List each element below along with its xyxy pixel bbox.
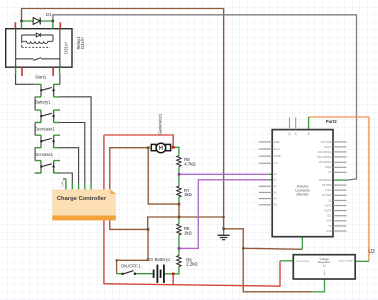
arduino left pin labels xyxy=(274,141,282,207)
svg-text:D13 PWM: D13 PWM xyxy=(321,141,332,144)
svg-text:Part2: Part2 xyxy=(326,119,338,124)
svg-text:12V Battery1: 12V Battery1 xyxy=(146,257,171,262)
diode D1 xyxy=(22,18,53,25)
node brown T to arduino branch xyxy=(242,247,244,249)
svg-text:5V: 5V xyxy=(288,132,291,135)
relay pin red stub bottom inner-right xyxy=(52,67,54,76)
svg-text:D9 PWM(A): D9 PWM(A) xyxy=(319,161,332,164)
wire green Arduino D7 lead xyxy=(333,179,347,181)
wire green R6 to battery plus xyxy=(164,267,179,274)
charge controller U1 box xyxy=(52,189,116,220)
wire dark Decrease1 to Increase1 xyxy=(34,148,36,161)
svg-text:D31A*: D31A* xyxy=(64,41,69,53)
wire brown D1-left to ground top rail xyxy=(22,9,224,229)
svg-text:adjust: adjust xyxy=(323,270,326,276)
wire gray D1-right to Arduino D7 xyxy=(53,15,357,180)
wire dark relay to Start1 right xyxy=(59,74,61,84)
wire brown branch to Arduino bottom pin xyxy=(243,248,302,249)
node R5/R6 purple junction xyxy=(178,247,181,250)
svg-text:ON./OFF.1: ON./OFF.1 xyxy=(121,263,142,268)
motor Generator1 xyxy=(150,143,172,153)
wire green R5 to purple junction xyxy=(178,235,180,249)
svg-text:5V: 5V xyxy=(329,225,332,228)
svg-text:Relay1D31A*: Relay1D31A* xyxy=(76,36,85,50)
wire dark CC pin1 hook xyxy=(63,178,66,180)
svg-text:ArduinoLeonardo(Rev3b): ArduinoLeonardo(Rev3b) xyxy=(295,185,309,197)
arduino right pin labels xyxy=(318,141,333,233)
relay pin red stub top-right xyxy=(59,22,61,28)
wire green Arduino top pin lead xyxy=(308,117,310,130)
svg-text:output voltage: output voltage xyxy=(338,259,354,262)
svg-text:D6 PWM(A): D6 PWM(A) xyxy=(319,179,332,182)
node R8/R7 purple junction xyxy=(178,173,181,176)
ground xyxy=(218,235,230,239)
relay pin red stub top-left xyxy=(14,22,16,28)
switch Start1 xyxy=(35,84,60,97)
relay actuator dashed line xyxy=(22,41,50,47)
relay K1 box xyxy=(6,21,72,76)
svg-text:D1/TX: D1/TX xyxy=(325,204,332,207)
wire green ON/OFF left lead xyxy=(117,273,123,275)
svg-text:Start1: Start1 xyxy=(35,75,47,80)
svg-text:U2: U2 xyxy=(368,249,375,255)
arduino top pins xyxy=(290,117,296,129)
wire green VR input lead xyxy=(280,260,293,262)
node D1 right junction xyxy=(52,20,54,22)
resistor R6 xyxy=(177,256,181,267)
svg-text:D4(A): D4(A) xyxy=(325,189,331,192)
wire dark Decrease1 to CC pin3 xyxy=(60,148,79,184)
voltage regulator U2 box xyxy=(293,255,355,279)
wire green Arduino A1 lead xyxy=(268,179,272,181)
wire orange Arduino top pin to VR output xyxy=(309,117,369,261)
battery 12V xyxy=(154,265,164,283)
node ground brown junction xyxy=(222,228,225,231)
node brown T at mid rail xyxy=(223,216,225,218)
switch ON/OFF1 xyxy=(122,271,137,275)
node R7/R5 brown junction xyxy=(178,203,181,206)
relay pin green stub bottom-left xyxy=(15,67,17,74)
svg-text:D11 PWM(A): D11 PWM(A) xyxy=(318,151,332,154)
svg-text:SCL: SCL xyxy=(327,215,332,218)
node motor-left brown junction xyxy=(147,146,150,149)
wire dark Increase1 to CC pin2 xyxy=(60,173,72,184)
wire brown mid horizontal to ground rail xyxy=(179,216,224,218)
svg-text:N.C.: N.C. xyxy=(274,162,279,165)
arduino right pins xyxy=(333,142,347,231)
wire brown R7/R5 junction down xyxy=(178,204,180,217)
svg-text:IOREF: IOREF xyxy=(274,155,282,158)
wire brown mid horizontal to left elbow xyxy=(148,217,179,229)
wire dark Battery1 to Decrease1 xyxy=(34,123,36,136)
svg-text:Battery1: Battery1 xyxy=(35,100,51,105)
wire brown ground to VR bottom xyxy=(224,229,312,292)
switch Battery1 xyxy=(35,110,60,122)
node J4 brown junction xyxy=(147,228,150,231)
switch Increase1 xyxy=(35,161,60,173)
arduino U3 box xyxy=(259,117,347,237)
wire red left vertical to bottom rail to VR input xyxy=(104,135,280,286)
wire green motor-right to R8 xyxy=(176,147,179,155)
wire purple R8/R7 junction to Arduino A0 xyxy=(179,173,268,175)
wire green ground lead xyxy=(223,229,225,235)
relay pin green stub bottom-right xyxy=(59,67,61,74)
svg-text:LiPo: LiPo xyxy=(61,180,65,186)
svg-text:D12(A): D12(A) xyxy=(324,146,332,149)
wire brown motor-junction down to R7/R5 junction xyxy=(148,148,179,204)
wire red motor-right to resistor lead xyxy=(173,146,176,148)
wire green Arduino A0 lead xyxy=(268,173,272,175)
wire green ON/OFF to battery left xyxy=(136,273,153,275)
svg-text:Reset: Reset xyxy=(274,148,281,151)
wire dark Start1 to CC pin5 xyxy=(60,97,91,184)
svg-text:GND: GND xyxy=(326,230,332,233)
wire dark relay to Start1 left xyxy=(16,74,35,84)
resistor R5 xyxy=(177,224,181,235)
svg-text:D10 PWM(A): D10 PWM(A) xyxy=(318,156,332,159)
svg-text:Generator1: Generator1 xyxy=(158,113,163,135)
svg-text:D1: D1 xyxy=(46,12,52,17)
wire brown motor-left to CC bottom pin xyxy=(110,148,148,230)
wire dark Battery1 to CC pin4 xyxy=(60,123,85,184)
svg-text:AREF: AREF xyxy=(274,141,281,144)
svg-text:Increase1: Increase1 xyxy=(35,152,54,157)
wire brown J4 down to ON/OFF switch xyxy=(117,229,148,273)
node ON/OFF brown corner xyxy=(116,259,118,261)
wire green R7 to J2 xyxy=(178,197,180,204)
node D1 left junction xyxy=(20,20,22,22)
wire red battery plus down to bottom rail xyxy=(172,274,174,285)
wire green CC pin leads xyxy=(66,179,91,190)
relay pin red stub bottom inner-left xyxy=(21,67,23,76)
svg-text:input voltage: input voltage xyxy=(296,260,310,263)
wire red generator top xyxy=(104,135,173,147)
relay switch contact xyxy=(16,58,60,60)
svg-text:D5 PWM: D5 PWM xyxy=(322,184,332,187)
arduino top pin labels xyxy=(288,131,310,135)
svg-text:Decrease1: Decrease1 xyxy=(35,126,56,131)
relay pin green stub top coil-left xyxy=(21,21,23,29)
resistor R7 xyxy=(177,186,181,197)
svg-text:D8(A): D8(A) xyxy=(325,166,331,169)
wire green VR output lead xyxy=(355,260,369,262)
wire green Arduino bottom pin lead xyxy=(301,237,303,250)
resistor R8 xyxy=(177,156,181,167)
node mid rail brown junction xyxy=(178,216,181,219)
svg-text:D0/RX: D0/RX xyxy=(325,210,332,213)
relay coil xyxy=(22,41,53,43)
node motor-right red junction xyxy=(172,146,175,149)
svg-text:SDA: SDA xyxy=(327,220,332,223)
relay pin green stub top coil-right xyxy=(52,21,54,29)
switch Decrease1 xyxy=(35,135,60,148)
wire green VR bottom lead xyxy=(312,279,325,292)
wire green J3 to R5 xyxy=(178,217,180,224)
arduino left pins xyxy=(259,142,272,205)
svg-text:3V: 3V xyxy=(295,132,298,135)
wire purple R5/R6 junction to Arduino A1 xyxy=(179,180,268,249)
svg-text:D3 PWM: D3 PWM xyxy=(322,194,332,197)
wire green R8 to R7 through purple junction xyxy=(178,167,180,187)
node battery red junction xyxy=(172,273,175,276)
svg-text:Charge Controller: Charge Controller xyxy=(57,196,107,202)
wire green purple junction to R6 xyxy=(178,248,180,255)
relay internal flyback diode xyxy=(22,35,53,41)
wire dark Start1 to Battery1 xyxy=(34,97,36,110)
